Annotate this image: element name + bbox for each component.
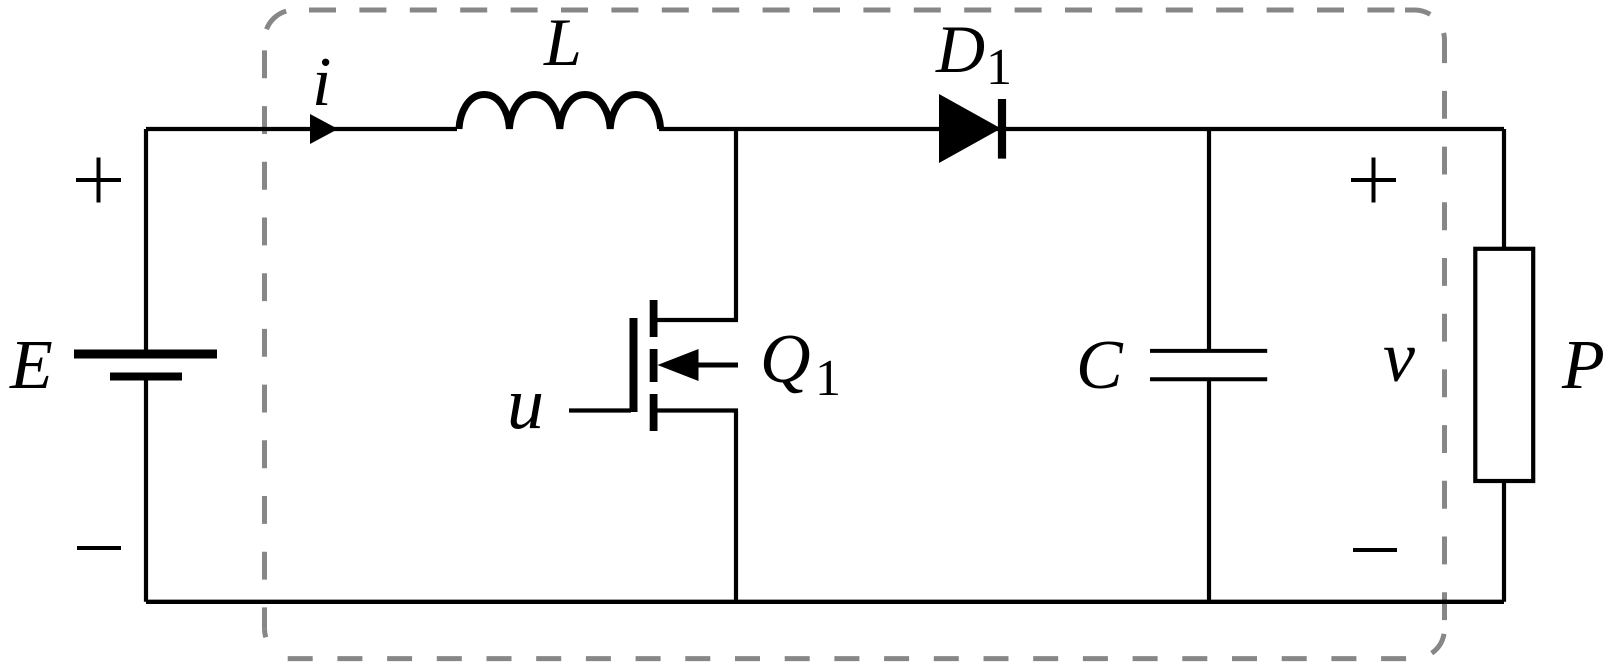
MOSFET Q1 body arrow (658, 349, 699, 381)
svg-text:v: v (1383, 317, 1415, 397)
wire: top rail left segment (battery + to inductor) (146, 127, 457, 131)
right edge top tail dash (1441, 33, 1447, 58)
svg-text:D: D (935, 11, 985, 87)
MOSFET Q1 gate wire (569, 408, 631, 412)
bottom-right corner dash (1432, 634, 1444, 653)
MOSFET Q1 source wire (655, 411, 738, 602)
battery E long plate (74, 350, 217, 359)
bottom-left corner dash tail (265, 629, 266, 638)
plus sign (output side) (1351, 158, 1396, 203)
bottom dashed edge (285, 656, 1415, 661)
MOSFET Q1 gate bar (630, 318, 638, 412)
top-left corner dash (267, 11, 287, 29)
svg-text:1: 1 (815, 350, 841, 407)
capacitor C plates (1150, 351, 1267, 379)
svg-text:i: i (312, 44, 331, 121)
wire: left vertical (battery branch) (144, 129, 148, 602)
capacitor C branch top wire (1207, 129, 1211, 351)
top-right corner dash (1405, 10, 1430, 14)
svg-text:E: E (9, 327, 53, 404)
minus sign (output side) (1353, 548, 1397, 552)
battery E short plate (110, 373, 182, 381)
MOSFET Q1 drain wire (655, 129, 738, 320)
wire: top rail right segment (inductor to load) (659, 127, 1504, 131)
dashed converter boundary box (265, 10, 1445, 659)
capacitor C branch bottom wire (1207, 379, 1211, 602)
svg-text:C: C (1076, 327, 1124, 404)
inductor L (459, 95, 661, 130)
plus sign (battery side) (76, 158, 121, 203)
right dashed edge (1442, 58, 1447, 629)
minus sign (battery side) (77, 546, 121, 550)
MOSFET Q1 channel bars (650, 300, 658, 431)
wire: right vertical (load branch) (1502, 129, 1506, 602)
resistor P (load) (1475, 249, 1533, 481)
svg-text:P: P (1561, 327, 1605, 404)
diode D1 cathode bar (998, 99, 1006, 159)
svg-text:Q: Q (760, 321, 811, 398)
svg-text:L: L (543, 4, 582, 80)
svg-text:1: 1 (986, 39, 1012, 96)
top dashed edge (295, 8, 1406, 13)
svg-text:u: u (507, 363, 544, 445)
left dashed edge (262, 40, 267, 629)
diode D1 (939, 94, 1001, 163)
current arrow i (310, 114, 338, 144)
wire: bottom rail (146, 600, 1504, 604)
